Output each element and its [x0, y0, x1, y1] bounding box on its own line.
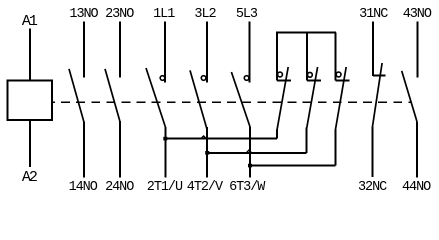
svg-text:43NO: 43NO: [403, 7, 432, 22]
svg-text:44NO: 44NO: [402, 180, 431, 195]
svg-text:4T2/V: 4T2/V: [187, 180, 224, 195]
svg-text:6T3/W: 6T3/W: [229, 180, 266, 195]
svg-text:1L1: 1L1: [153, 7, 175, 22]
svg-text:24NO: 24NO: [105, 180, 134, 195]
svg-text:31NC: 31NC: [359, 7, 388, 22]
svg-text:A2: A2: [22, 169, 37, 186]
svg-text:A1: A1: [22, 13, 38, 30]
svg-text:32NC: 32NC: [358, 180, 387, 195]
svg-text:13NO: 13NO: [69, 7, 98, 22]
svg-text:14NO: 14NO: [69, 180, 98, 195]
svg-text:23NO: 23NO: [105, 7, 134, 22]
svg-text:2T1/U: 2T1/U: [147, 180, 183, 195]
svg-text:5L3: 5L3: [236, 7, 258, 22]
svg-text:3L2: 3L2: [194, 7, 216, 22]
